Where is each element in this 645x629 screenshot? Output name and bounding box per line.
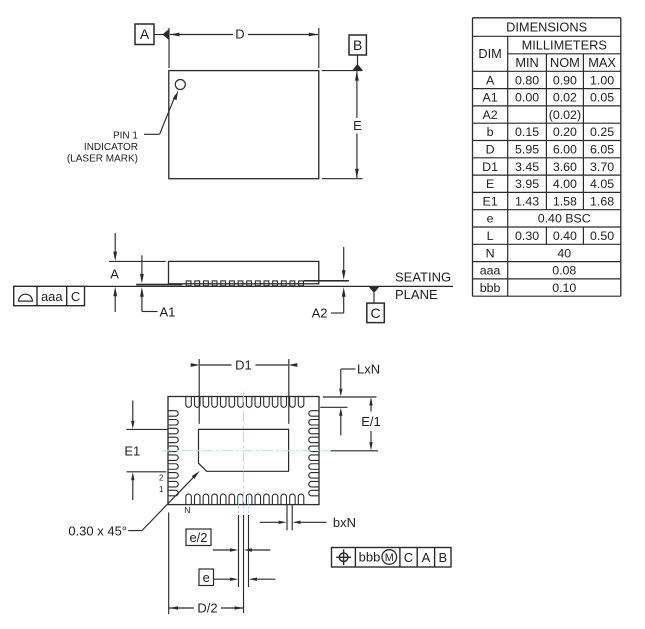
svg-text:D1: D1	[482, 160, 498, 174]
bottom view top pin row	[186, 397, 304, 407]
svg-text:E: E	[486, 177, 494, 191]
svg-text:D: D	[235, 27, 244, 42]
svg-text:0.40: 0.40	[553, 229, 577, 243]
centerline left of package center (e/2 ref)	[238, 496, 240, 514]
svg-text:0.80: 0.80	[515, 73, 539, 87]
dimension bxN	[260, 505, 356, 530]
datum C symbol	[367, 287, 385, 323]
svg-text:0.15: 0.15	[515, 125, 539, 139]
svg-text:MILLIMETERS: MILLIMETERS	[522, 37, 607, 52]
svg-text:A: A	[140, 26, 150, 42]
svg-text:0.00: 0.00	[515, 91, 539, 105]
svg-text:B: B	[353, 37, 362, 53]
right side lead (A2 reference)	[304, 280, 349, 282]
svg-text:0.50: 0.50	[590, 229, 614, 243]
seating plane line	[85, 285, 454, 287]
svg-text:1.58: 1.58	[553, 194, 577, 208]
seating plane label	[395, 270, 451, 303]
dimension A2	[312, 247, 346, 321]
svg-text:B: B	[438, 550, 447, 565]
position feature control frame (bbb M C A B)	[332, 548, 452, 568]
svg-text:b: b	[487, 125, 494, 139]
svg-text:1: 1	[159, 485, 164, 494]
svg-text:DIMENSIONS: DIMENSIONS	[506, 19, 587, 34]
svg-text:3.70: 3.70	[590, 160, 614, 174]
dimension E	[322, 71, 363, 179]
svg-text:0.20: 0.20	[553, 125, 577, 139]
dimensions table	[473, 18, 621, 296]
bottom view bottom pin row	[186, 494, 304, 504]
svg-text:3.95: 3.95	[515, 177, 539, 191]
svg-text:1.43: 1.43	[515, 194, 539, 208]
side view package body	[169, 261, 319, 283]
svg-text:0.30 x 45°: 0.30 x 45°	[68, 523, 127, 538]
top view package body	[169, 71, 319, 179]
svg-text:3.60: 3.60	[553, 160, 577, 174]
svg-text:C: C	[404, 550, 413, 565]
svg-text:5.95: 5.95	[515, 142, 539, 156]
svg-text:4.00: 4.00	[553, 177, 577, 191]
svg-text:0.25: 0.25	[590, 125, 614, 139]
svg-text:bbb: bbb	[359, 550, 381, 565]
bottom view right pin column	[309, 411, 319, 496]
svg-text:A2: A2	[483, 108, 498, 122]
svg-text:0.10: 0.10	[552, 281, 576, 295]
left side lead	[136, 284, 182, 286]
svg-text:D1: D1	[235, 357, 252, 372]
svg-text:PIN 1: PIN 1	[113, 130, 138, 141]
dimension e	[199, 515, 275, 587]
dimension D	[169, 27, 319, 69]
dimension A	[109, 233, 166, 312]
datum A symbol	[135, 24, 169, 45]
bottom view package body	[168, 397, 319, 505]
svg-text:6.00: 6.00	[553, 142, 577, 156]
svg-text:6.05: 6.05	[590, 142, 614, 156]
dimension e/2	[186, 515, 270, 613]
centerline right of package center (e ref)	[248, 496, 250, 514]
svg-text:D: D	[486, 142, 495, 156]
horizontal centerline	[162, 450, 331, 452]
svg-text:C: C	[71, 289, 80, 304]
profile feature control frame (aaa)	[14, 286, 85, 305]
exposed thermal pad with chamfer	[199, 429, 289, 471]
svg-text:2: 2	[159, 474, 164, 483]
svg-text:0.02: 0.02	[553, 91, 577, 105]
svg-text:0.05: 0.05	[590, 91, 614, 105]
svg-text:bbb: bbb	[480, 281, 501, 295]
datum B symbol	[349, 35, 366, 71]
svg-text:N: N	[486, 246, 495, 260]
svg-text:0.40 BSC: 0.40 BSC	[538, 212, 591, 226]
svg-text:e/2: e/2	[189, 530, 207, 545]
svg-text:MIN: MIN	[515, 55, 538, 70]
vertical centerline	[243, 392, 245, 514]
svg-text:C: C	[370, 305, 380, 321]
side view lead squares	[186, 281, 303, 286]
svg-text:bxN: bxN	[333, 515, 356, 530]
svg-text:SEATING: SEATING	[395, 270, 451, 285]
svg-text:4.05: 4.05	[590, 177, 614, 191]
svg-text:0.08: 0.08	[552, 264, 576, 278]
svg-text:40: 40	[557, 246, 571, 260]
dimension D1	[191, 357, 298, 424]
svg-text:0.90: 0.90	[553, 73, 577, 87]
svg-text:D/2: D/2	[197, 601, 217, 616]
pin 1 indicator label	[67, 130, 139, 164]
svg-text:DIM: DIM	[478, 46, 501, 61]
svg-text:A1: A1	[160, 304, 176, 319]
svg-text:A1: A1	[483, 91, 498, 105]
dimension E/1	[331, 397, 381, 451]
svg-text:NOM: NOM	[550, 55, 580, 70]
chamfer note 0.30 x 45	[68, 470, 201, 539]
svg-text:E: E	[353, 118, 362, 133]
svg-text:e: e	[487, 212, 494, 226]
bottom view left pin column	[169, 411, 179, 496]
dimension E1	[124, 401, 168, 501]
svg-text:MAX: MAX	[588, 55, 616, 70]
svg-text:LxN: LxN	[357, 361, 380, 376]
svg-text:3.45: 3.45	[515, 160, 539, 174]
svg-text:M: M	[385, 552, 394, 564]
pin 1 indicator leader	[144, 90, 180, 134]
dimension D/2	[169, 512, 244, 615]
svg-text:e: e	[203, 570, 210, 585]
svg-text:E/1: E/1	[361, 414, 381, 429]
svg-text:aaa: aaa	[41, 289, 63, 304]
svg-text:1.68: 1.68	[590, 194, 614, 208]
pin 1 indicator circle	[175, 80, 185, 90]
svg-text:aaa: aaa	[480, 264, 501, 278]
svg-text:(LASER MARK): (LASER MARK)	[67, 153, 138, 164]
svg-text:A: A	[422, 550, 431, 565]
svg-text:PLANE: PLANE	[395, 287, 438, 302]
svg-text:A: A	[486, 73, 495, 87]
svg-text:N: N	[184, 505, 190, 515]
svg-text:A2: A2	[312, 306, 328, 321]
svg-text:(0.02): (0.02)	[549, 108, 581, 122]
svg-text:E1: E1	[483, 194, 498, 208]
svg-text:0.30: 0.30	[515, 229, 539, 243]
svg-text:1.00: 1.00	[590, 73, 614, 87]
dimension LxN	[320, 361, 380, 435]
svg-text:L: L	[487, 229, 494, 243]
dimension A1	[140, 255, 175, 319]
svg-text:E1: E1	[124, 443, 140, 458]
svg-text:INDICATOR: INDICATOR	[84, 142, 138, 153]
svg-text:A: A	[110, 267, 119, 282]
